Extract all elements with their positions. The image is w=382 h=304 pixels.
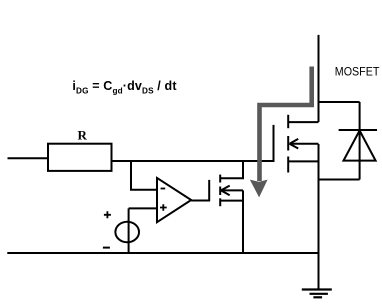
wire resistor to gate node (111, 160, 275, 162)
wire op-amp noninverting input (129, 207, 157, 209)
wire Q2 source down to ground (318, 144, 320, 290)
transistor Q1 (small MOSFET) (209, 161, 243, 206)
wire bottom rail (7, 252, 318, 254)
diode D1 (body diode) (339, 102, 377, 180)
current path arrow i_DG (gray highlight) (250, 67, 312, 198)
wire op-amp output to Q1 gate (191, 200, 210, 202)
label R (78, 128, 88, 143)
wire top node to diode (319, 101, 360, 103)
svg-text:MOSFET: MOSFET (335, 67, 380, 79)
label + of V1 (104, 211, 111, 218)
svg-text:R: R (78, 128, 88, 143)
wire branch to op-amp inverting input (131, 160, 157, 190)
wire diode anode to source node (319, 179, 360, 181)
resistor R (48, 144, 112, 171)
transistor Q2 (power MOSFET) (274, 115, 319, 173)
label - of V1 (103, 247, 110, 249)
ground (302, 290, 332, 298)
wire drain from top (318, 35, 320, 122)
label MOSFET (335, 67, 380, 79)
formula i_DG = C_gd * dv_DS / dt (72, 79, 177, 96)
wire left input (8, 157, 49, 159)
voltage source V1 (115, 208, 139, 253)
wire Q1 source to ground rail (242, 190, 244, 253)
op-amp U1 (157, 178, 191, 222)
